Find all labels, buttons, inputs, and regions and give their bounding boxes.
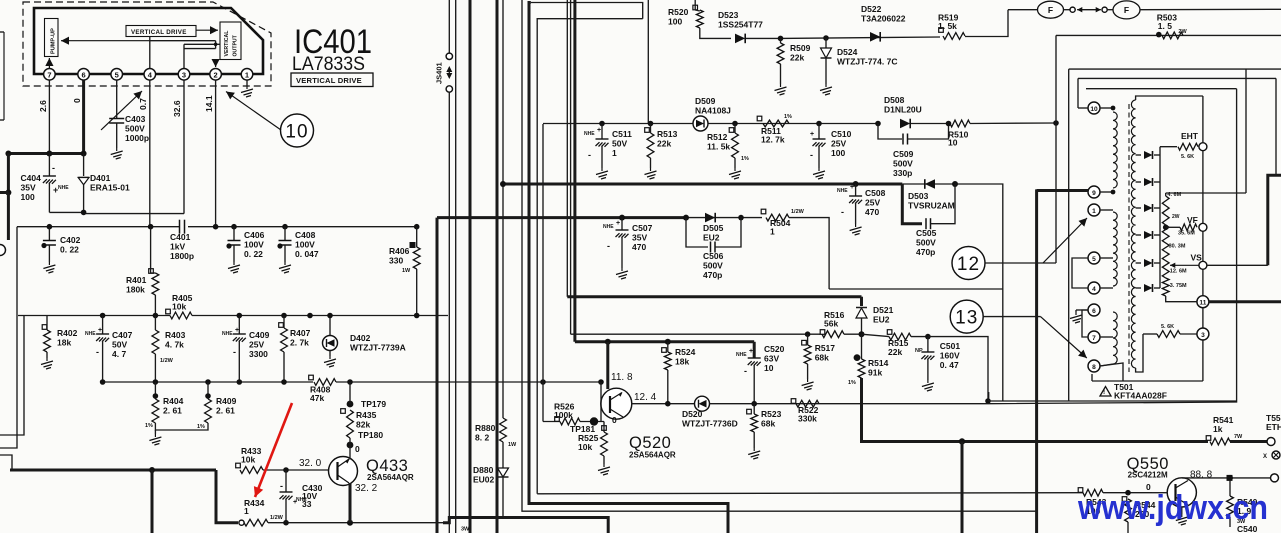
svg-text:0. 22: 0. 22 xyxy=(60,245,79,255)
svg-text:1%: 1% xyxy=(848,380,856,386)
svg-text:TVSRU2AM: TVSRU2AM xyxy=(908,201,955,211)
svg-text:1/2W: 1/2W xyxy=(270,515,284,521)
svg-text:R880: R880 xyxy=(475,423,496,433)
svg-text:C511: C511 xyxy=(612,129,632,139)
resistor R526 series xyxy=(555,417,560,422)
arrow from node 10 to pin 2 xyxy=(226,92,281,131)
Q550 emitter ground xyxy=(1181,507,1183,514)
thick wire x152 down xyxy=(151,470,154,533)
resistor R408 series xyxy=(309,375,314,380)
fuse F2 xyxy=(1107,9,1114,11)
svg-text:30. 3M: 30. 3M xyxy=(1169,244,1186,250)
wire row B to corner x1003 xyxy=(955,184,1003,401)
outer box bottom y401 xyxy=(989,400,1237,402)
resistor R409 xyxy=(207,382,209,399)
svg-text:10k: 10k xyxy=(578,442,592,452)
wire pin7 down xyxy=(48,80,50,153)
svg-text:ETH: ETH xyxy=(1266,422,1281,432)
svg-text:1: 1 xyxy=(612,148,617,158)
T501 primary winding middle xyxy=(1113,212,1117,286)
arrow node 12 to pin 1 xyxy=(1043,218,1087,263)
wire row C thin continues xyxy=(686,217,762,219)
diode D402 circled xyxy=(329,316,331,337)
svg-text:-: - xyxy=(607,241,610,251)
resistor R520 xyxy=(693,5,698,10)
IC401 internal wires pin3 pin2 to VERTICAL OUTPUT xyxy=(184,43,220,45)
wire pin5 pin4 bracket xyxy=(1072,258,1088,288)
svg-text:3300: 3300 xyxy=(249,349,268,359)
svg-text:2. 7k: 2. 7k xyxy=(290,338,309,348)
vertical bus x503 with R880 D880 xyxy=(502,0,504,418)
ground R402 xyxy=(41,358,53,369)
box vertical x1246 xyxy=(1245,69,1247,193)
svg-text:470p: 470p xyxy=(703,270,722,280)
resistor R404 xyxy=(154,382,156,399)
svg-text:EHT: EHT xyxy=(1181,131,1199,141)
row C thick y217 xyxy=(437,216,686,219)
svg-text:NHE: NHE xyxy=(85,331,96,337)
vertical bus x567 xyxy=(566,0,568,297)
node 10 circled xyxy=(281,114,314,147)
svg-text:NHE: NHE xyxy=(584,131,595,137)
svg-text:F: F xyxy=(1048,5,1053,15)
row A y123 main signal line xyxy=(543,123,694,125)
svg-text:+: + xyxy=(235,327,239,334)
transistor Q520 xyxy=(601,388,632,419)
arrow to pin 4 area xyxy=(101,91,142,130)
svg-text:5. 6K: 5. 6K xyxy=(1161,324,1174,330)
terminal Q550 collector xyxy=(1271,474,1279,482)
wire y522 to Q433 collector xyxy=(286,522,443,524)
diode D880 xyxy=(498,468,509,477)
svg-text:82k: 82k xyxy=(356,420,370,430)
node 13 circled xyxy=(950,300,983,333)
svg-text:R409: R409 xyxy=(216,396,237,406)
svg-text:R403: R403 xyxy=(165,330,186,340)
inner box bottom under pin 8 xyxy=(1092,380,1203,382)
svg-text:VERTICAL DRIVE: VERTICAL DRIVE xyxy=(296,76,362,85)
svg-text:R402: R402 xyxy=(57,328,78,338)
svg-text:C408: C408 xyxy=(295,230,316,240)
svg-text:T3A206022: T3A206022 xyxy=(861,14,906,24)
thick wire left edge down xyxy=(7,154,10,193)
diode D503 with C505 bracket xyxy=(902,183,955,185)
svg-text:NHE: NHE xyxy=(603,224,614,230)
svg-text:R435: R435 xyxy=(356,410,377,420)
svg-text:C409: C409 xyxy=(249,330,270,340)
vertical x1056 R510 to node12 line xyxy=(1055,35,1057,263)
svg-text:0: 0 xyxy=(72,98,82,103)
resistor R406 xyxy=(410,242,416,248)
capacitor C510 xyxy=(816,121,822,127)
ground R525 xyxy=(598,464,610,475)
svg-text:91k: 91k xyxy=(868,368,882,378)
T501 pin 7 xyxy=(1088,331,1100,343)
ground C403 xyxy=(111,148,123,159)
wire R404 R409 bottoms join xyxy=(155,423,208,430)
svg-text:10k: 10k xyxy=(241,455,255,465)
svg-text:10: 10 xyxy=(948,138,958,148)
svg-text:R401: R401 xyxy=(126,275,147,285)
IC401 pin 4 xyxy=(144,69,156,81)
svg-text:3: 3 xyxy=(182,70,186,79)
junction dots bus y315 xyxy=(100,313,106,319)
thick bus x962 down xyxy=(961,442,964,533)
svg-text:100k: 100k xyxy=(554,410,573,420)
svg-text:32. 0: 32. 0 xyxy=(299,458,322,469)
capacitor C409 xyxy=(238,316,240,335)
wire y38 to D522 R519 xyxy=(781,37,941,38)
svg-text:C403: C403 xyxy=(125,114,146,124)
svg-text:NHE: NHE xyxy=(58,185,69,191)
thick wire Q520 emitter xyxy=(606,342,609,389)
ground R517 xyxy=(802,379,814,390)
box line y88 xyxy=(1086,88,1237,90)
ground R523 xyxy=(748,448,760,459)
svg-text:C406: C406 xyxy=(244,230,265,240)
IC401 pin 7 xyxy=(44,69,56,81)
T501 secondary winding xyxy=(1131,100,1135,368)
svg-text:1W: 1W xyxy=(402,268,411,274)
svg-text:50V: 50V xyxy=(112,340,127,350)
ground C511 xyxy=(596,168,608,179)
resistor R517 xyxy=(802,340,807,345)
thick bus y441 xyxy=(962,440,1208,443)
resistor R503 series xyxy=(1156,32,1162,38)
svg-text:0.7: 0.7 xyxy=(138,98,148,110)
diode D401 xyxy=(83,154,85,177)
ground D402 xyxy=(324,356,336,367)
testpoint TP181 xyxy=(590,417,598,425)
thin box top y1.5 xyxy=(531,3,643,19)
ground C510 xyxy=(813,168,825,179)
capacitor C406 xyxy=(233,227,235,240)
svg-text:100: 100 xyxy=(21,192,35,202)
svg-text:!: ! xyxy=(1103,389,1105,396)
rectifier diode 5 xyxy=(1136,262,1141,264)
svg-text:5: 5 xyxy=(1092,256,1096,263)
svg-text:10: 10 xyxy=(764,363,774,373)
ground R512 xyxy=(729,168,741,179)
resistor R516 series xyxy=(820,330,825,335)
capacitor C404 xyxy=(48,154,50,177)
T501 pin 6 xyxy=(1088,304,1100,316)
capacitor C408 xyxy=(284,227,286,240)
testpoint TP179 xyxy=(347,401,354,408)
outer box bottom vertical x988 xyxy=(988,392,990,401)
capacitor C407 xyxy=(102,316,104,335)
bus y315 left end down xyxy=(0,316,24,436)
Q550 collector up xyxy=(1182,477,1271,479)
svg-text:R517: R517 xyxy=(815,343,836,353)
svg-text:9: 9 xyxy=(1092,190,1096,197)
bleeder chain resistors xyxy=(1162,196,1169,225)
wire secondary bottom xyxy=(1136,334,1143,372)
fuse line to F symbols xyxy=(1008,9,1037,11)
svg-text:25V: 25V xyxy=(831,139,846,149)
svg-text:63V: 63V xyxy=(764,354,779,364)
svg-text:7: 7 xyxy=(1092,335,1096,342)
svg-text:0: 0 xyxy=(612,415,617,425)
svg-text:D505: D505 xyxy=(703,223,724,233)
svg-text:88. 8: 88. 8 xyxy=(1190,470,1213,481)
IC401 internal block PUMP-UP xyxy=(45,19,59,57)
vertical bus x497 thick xyxy=(496,0,499,533)
Q433 collector thick down xyxy=(349,483,352,523)
wire R504 corner down to y289 xyxy=(789,218,829,289)
capacitor C403 xyxy=(109,119,124,124)
IC401 pin 1 xyxy=(241,69,253,81)
vertical bus x522 with corner at y508 xyxy=(522,0,1037,511)
box vertical x1068 outer left xyxy=(1068,69,1070,401)
terminal T55 ETH xyxy=(1267,438,1275,446)
svg-text:R404: R404 xyxy=(163,396,184,406)
svg-text:160V: 160V xyxy=(940,351,960,361)
thick bus y470 xyxy=(10,469,216,472)
thick feed to pin 9 xyxy=(1037,189,1088,192)
rectifier diode 2 xyxy=(1136,181,1141,183)
svg-text:R524: R524 xyxy=(675,347,696,357)
svg-text:7W: 7W xyxy=(1234,434,1243,440)
IC401 internal wire pin4 to VERTICAL DRIVE xyxy=(149,37,151,69)
svg-text:NHE: NHE xyxy=(222,331,233,337)
svg-text:1%: 1% xyxy=(197,424,205,430)
red annotation arrow xyxy=(255,403,292,497)
wire pin1 to ground xyxy=(246,80,248,86)
svg-text:3. 75M: 3. 75M xyxy=(1170,283,1187,289)
diode D508 with C509 bracket xyxy=(875,121,881,127)
svg-text:500V: 500V xyxy=(125,124,145,134)
T501 pin 8 xyxy=(1088,360,1100,372)
svg-text:0: 0 xyxy=(355,444,360,454)
svg-text:11. 8: 11. 8 xyxy=(611,372,633,383)
wire Q520 base from left xyxy=(580,421,604,423)
svg-text:R520: R520 xyxy=(668,7,689,17)
T501 pin 3 xyxy=(1197,328,1209,340)
svg-text:10: 10 xyxy=(1090,106,1098,113)
IC401 internal wire pin7 arrow up to PUMP-UP xyxy=(48,58,50,69)
svg-text:47k: 47k xyxy=(310,393,324,403)
svg-text:R513: R513 xyxy=(657,129,678,139)
svg-text:500V: 500V xyxy=(703,261,723,271)
svg-text:C509: C509 xyxy=(893,149,914,159)
svg-text:C507: C507 xyxy=(632,223,653,233)
svg-text:D402: D402 xyxy=(350,333,371,343)
svg-text:100V: 100V xyxy=(295,240,315,250)
wire collector line to box corner xyxy=(988,89,1237,404)
rectifier diode 3 xyxy=(1136,207,1141,209)
resistor R435 xyxy=(349,382,351,404)
rectifier output bus xyxy=(1159,147,1161,288)
svg-text:C404: C404 xyxy=(21,173,42,183)
svg-text:-: - xyxy=(588,150,591,160)
svg-text:OUTPUT: OUTPUT xyxy=(233,34,239,56)
svg-text:1800p: 1800p xyxy=(170,251,194,261)
svg-text:KFT4AA028F: KFT4AA028F xyxy=(1114,391,1167,401)
thick wire down to C520 xyxy=(753,342,756,358)
svg-text:330p: 330p xyxy=(893,168,912,178)
svg-text:1: 1 xyxy=(1092,208,1096,215)
IC401 internal arrow into pin2 xyxy=(215,60,217,67)
vertical bus x449 JS401 upper xyxy=(448,0,450,53)
left edge stub upper xyxy=(3,32,5,120)
svg-text:NHE: NHE xyxy=(736,352,747,358)
svg-text:12: 12 xyxy=(957,254,980,275)
ground C408 xyxy=(279,262,291,273)
resistor R403 xyxy=(154,316,156,331)
svg-text:-: - xyxy=(744,366,747,376)
IC401 pin 2 xyxy=(210,69,222,81)
resistor R544 xyxy=(1122,497,1127,502)
wire Q520 collector line y403 xyxy=(632,403,694,405)
svg-text:1/2W: 1/2W xyxy=(160,358,174,364)
svg-text:5: 5 xyxy=(115,70,119,79)
wire C501 node right corner down xyxy=(928,337,988,401)
rectifier diode 6 xyxy=(1136,287,1141,289)
svg-text:2SA564AQR: 2SA564AQR xyxy=(367,473,414,482)
vertical bus x449 lower xyxy=(448,92,450,533)
EHT terminal xyxy=(1199,143,1207,151)
resistor R402 xyxy=(42,325,47,330)
IC401 thick body outline xyxy=(34,8,263,74)
svg-text:0. 47: 0. 47 xyxy=(940,360,959,370)
capacitor C511 xyxy=(599,121,605,127)
svg-text:R514: R514 xyxy=(868,358,889,368)
VERTICAL DRIVE boxed label xyxy=(291,73,373,87)
svg-text:D524: D524 xyxy=(837,47,858,57)
IC401 internal arrow to PUMP-UP xyxy=(61,40,150,42)
svg-text:14.1: 14.1 xyxy=(204,95,214,112)
resistor R514 xyxy=(854,354,861,361)
svg-text:1%: 1% xyxy=(145,423,153,429)
VF tap resistor xyxy=(1163,225,1169,231)
svg-text:0. 22: 0. 22 xyxy=(244,249,263,259)
left edge connector half-circle xyxy=(0,245,6,256)
svg-text:TP180: TP180 xyxy=(358,430,383,440)
wire pin2 down xyxy=(215,80,217,227)
svg-text:100V: 100V xyxy=(244,240,264,250)
wire pin6 down thick xyxy=(82,80,85,153)
svg-text:7: 7 xyxy=(47,70,51,79)
wire pin6 pin7 bracket xyxy=(1082,310,1088,337)
box line y78 xyxy=(1078,77,1276,79)
svg-text:NA4108J: NA4108J xyxy=(695,106,731,116)
svg-text:C510: C510 xyxy=(831,129,852,139)
IC401 pin 5 xyxy=(111,69,123,81)
svg-text:1000p: 1000p xyxy=(125,133,149,143)
svg-text:35V: 35V xyxy=(632,233,647,243)
T501 primary winding upper xyxy=(1113,112,1117,188)
wire pin4 down xyxy=(149,80,151,227)
svg-text:WTZJT-774. 7C: WTZJT-774. 7C xyxy=(837,57,897,67)
svg-text:EU2: EU2 xyxy=(873,315,890,325)
svg-text:330k: 330k xyxy=(798,414,817,424)
svg-text:+: + xyxy=(616,220,620,227)
resistor R515 series xyxy=(887,330,892,335)
terminal crossed xyxy=(1272,451,1280,459)
svg-text:R509: R509 xyxy=(790,43,811,53)
thick wire R514 down to y441 xyxy=(862,378,963,442)
T501 pin 10 xyxy=(1088,102,1100,114)
ground R509 xyxy=(775,84,787,95)
svg-text:1: 1 xyxy=(770,227,775,237)
wire pin8 right stub xyxy=(1100,363,1123,381)
svg-text:+: + xyxy=(850,184,854,191)
svg-text:WTZJT-7739A: WTZJT-7739A xyxy=(350,343,406,353)
wire pin3 to D401 bottom xyxy=(84,213,184,215)
resistor R523 xyxy=(747,409,752,414)
svg-text:2SC4212M: 2SC4212M xyxy=(1128,471,1168,480)
svg-text:D880: D880 xyxy=(473,465,494,475)
svg-text:-: - xyxy=(233,347,236,357)
svg-text:WTZJT-7736D: WTZJT-7736D xyxy=(682,419,738,429)
ground R513 xyxy=(645,168,657,179)
svg-text:0. 047: 0. 047 xyxy=(295,249,319,259)
svg-text:4. 7: 4. 7 xyxy=(112,349,126,359)
svg-text:180k: 180k xyxy=(126,285,145,295)
resistor R524 xyxy=(662,348,667,353)
testpoint TP180 xyxy=(347,442,354,449)
terminal column vertical xyxy=(1202,96,1204,143)
svg-text:2: 2 xyxy=(214,70,218,79)
VS tap wire xyxy=(1170,264,1199,266)
svg-text:1/2W: 1/2W xyxy=(791,209,805,215)
svg-text:D401: D401 xyxy=(90,173,111,183)
svg-text:1kV: 1kV xyxy=(170,242,185,252)
svg-text:C508: C508 xyxy=(865,188,886,198)
resistor R405 series xyxy=(170,312,192,319)
ground C501 xyxy=(922,380,934,391)
svg-text:22k: 22k xyxy=(888,347,902,357)
thick stub to left edge xyxy=(0,191,8,194)
left stub y455 xyxy=(0,455,12,470)
svg-text:100: 100 xyxy=(668,17,682,27)
resistor R522 series xyxy=(791,399,796,404)
resistor R510 series xyxy=(950,120,970,127)
svg-text:NP: NP xyxy=(915,348,923,354)
resistor R540 xyxy=(1227,475,1233,481)
main bus y226 with C401 xyxy=(17,226,179,228)
transistor Q433 xyxy=(329,457,358,486)
arrow node 13 to pin 8 xyxy=(1041,317,1087,358)
svg-text:R512: R512 xyxy=(707,132,728,142)
thick wire pin 11 to right edge xyxy=(1209,300,1281,303)
svg-text:56k: 56k xyxy=(824,319,838,329)
svg-text:-: - xyxy=(96,347,99,357)
svg-text:1k: 1k xyxy=(1213,424,1223,434)
svg-text:R407: R407 xyxy=(290,328,311,338)
ground R404 xyxy=(149,434,161,445)
vertical bus x455 xyxy=(455,0,457,533)
wire VS to thick riser xyxy=(1207,264,1268,266)
svg-text:R406: R406 xyxy=(389,246,410,256)
ground pin6 xyxy=(1076,309,1088,311)
IC401 internal arrow VERTICAL DRIVE to VERTICAL OUTPUT xyxy=(196,29,218,31)
resistor R401 xyxy=(149,269,154,274)
wire R503 line y36 xyxy=(1056,34,1281,36)
T501 pin 5 xyxy=(1088,252,1100,264)
long thin line y492 Q550 base xyxy=(537,493,1083,494)
chain bottom to pin 11 xyxy=(1166,296,1197,302)
ground D524 xyxy=(820,84,832,95)
junction dots bus y226 xyxy=(47,224,53,230)
svg-text:EU02: EU02 xyxy=(473,475,495,485)
vertical bus x470 thick xyxy=(469,0,472,533)
svg-text:68k: 68k xyxy=(815,353,829,363)
svg-text:www.jdwx.cn: www.jdwx.cn xyxy=(1077,489,1268,527)
svg-text:10: 10 xyxy=(285,122,308,143)
svg-text:LA7833S: LA7833S xyxy=(292,54,365,75)
